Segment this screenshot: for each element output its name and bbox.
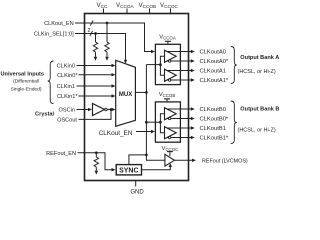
wire CLKout_EN to bank B enable	[136, 130, 155, 133]
oscillator inverter X1	[93, 104, 108, 116]
junction clock to SYNC and REFout buffer	[145, 154, 148, 157]
buffer B0 (differential)	[165, 108, 177, 120]
wire clock distribution vertical	[145, 65, 147, 155]
wire CLKoutB0*	[167, 117, 195, 120]
svg-text:VCCOA: VCCOA	[116, 2, 135, 9]
pin VCCOB	[139, 2, 157, 14]
junction clock to Bank B	[145, 121, 148, 124]
svg-text:CLKin_SEL[1:0]: CLKin_SEL[1:0]	[34, 32, 74, 38]
buffer B1 (differential)	[165, 127, 177, 139]
resistor R2 (CLKout_EN pulldown)	[105, 23, 109, 61]
resistor R1 (CLKin_SEL pulldown)	[93, 34, 97, 61]
svg-text:CLKoutA1*: CLKoutA1*	[200, 78, 229, 84]
svg-text:Output Bank B: Output Bank B	[240, 107, 279, 113]
svg-text:CLKoutA0*: CLKoutA0*	[200, 59, 229, 65]
wire CLKoutB1	[167, 126, 195, 129]
svg-text:VCCOB: VCCOB	[139, 2, 157, 9]
wire OSCin to oscillator buffer X1	[77, 108, 93, 111]
svg-text:(HCSL, or Hi-Z): (HCSL, or Hi-Z)	[238, 127, 276, 133]
wire CLKoutB1*	[167, 136, 195, 139]
pin GND	[130, 181, 144, 196]
wire CLKin0 to MUX	[77, 64, 116, 67]
SYNC block U3	[116, 165, 141, 175]
brace output bank B	[231, 101, 237, 144]
svg-text:SYNC: SYNC	[119, 167, 138, 174]
buffer A0 (differential)	[165, 50, 177, 62]
wire bank B input branch	[160, 114, 164, 133]
wire clock to Bank B	[146, 121, 160, 123]
wire CLKin1 to MUX	[77, 84, 116, 87]
wire OSCout feedback from oscillator buffer output	[79, 110, 112, 120]
resistor R3 (REFout_EN pulldown)	[94, 153, 98, 175]
pin VCC	[97, 2, 109, 14]
svg-text:CLKin1*: CLKin1*	[57, 94, 78, 100]
wire clock to Bank A	[146, 64, 160, 66]
wire SYNC enable to REFout buffer	[142, 163, 173, 170]
junction oscillator output / OSCout	[110, 108, 113, 111]
power tap VCCOC for REFout buffer	[161, 146, 178, 156]
svg-text:CLKin0: CLKin0	[57, 64, 75, 70]
svg-text:GND: GND	[130, 190, 144, 196]
output bank A box	[155, 44, 180, 84]
buffer A1 (differential)	[165, 69, 177, 81]
pin VCCOC	[160, 2, 179, 14]
svg-text:OSCout: OSCout	[57, 118, 77, 124]
svg-text:VCC: VCC	[97, 2, 109, 9]
svg-text:(HCSL, or Hi-Z): (HCSL, or Hi-Z)	[238, 69, 276, 75]
svg-text:OSCin: OSCin	[59, 108, 75, 114]
brace for universal inputs	[48, 61, 54, 104]
brace output bank A	[231, 47, 237, 84]
svg-text:CLKoutB0*: CLKoutB0*	[200, 117, 229, 123]
svg-text:CLKoutA0: CLKoutA0	[200, 50, 226, 56]
junction bank B input branch	[159, 121, 162, 124]
svg-text:MUX: MUX	[119, 92, 132, 98]
svg-text:(Differential/: (Differential/	[13, 79, 40, 85]
svg-text:Crystal: Crystal	[35, 112, 54, 118]
pin VCCOA	[116, 2, 135, 14]
svg-text:REFout (LVCMOS): REFout (LVCMOS)	[202, 159, 248, 165]
junction REFout_EN / pulldown R3	[95, 151, 98, 154]
wire clock to REFout buffer	[146, 155, 164, 160]
junction MUX output	[145, 91, 148, 94]
svg-text:CLKout_EN: CLKout_EN	[44, 21, 74, 27]
buffer U4 REFout (LVCMOS)	[165, 154, 175, 166]
svg-text:REFout_EN: REFout_EN	[46, 151, 76, 157]
svg-text:CLKoutB0: CLKoutB0	[200, 107, 226, 113]
wire CLKoutA1	[167, 69, 195, 72]
wire CLKin0* to MUX	[79, 73, 116, 76]
svg-text:VCCOB: VCCOB	[159, 92, 176, 98]
svg-text:CLKin1: CLKin1	[57, 84, 75, 90]
svg-text:VCCOC: VCCOC	[160, 2, 179, 9]
wire CLKin1* to MUX	[79, 94, 116, 97]
wire oscillator output to MUX	[107, 108, 115, 111]
junction CLKin_SEL / pulldown R1	[94, 32, 97, 35]
svg-text:CLKoutB1*: CLKoutB1*	[200, 136, 229, 142]
power tap VCCOB for Bank B	[159, 92, 176, 102]
IC boundary box U1	[85, 14, 189, 181]
mux U2	[116, 60, 136, 126]
wire CLKin_SEL bus into chip to MUX select	[75, 31, 127, 64]
wire CLKoutA0*	[167, 59, 195, 62]
wire MUX output	[135, 91, 146, 93]
wire CLKoutA0	[167, 50, 195, 53]
wire CLKout_EN from label into chip to bank A enable	[75, 20, 155, 53]
wire REFout output	[175, 159, 197, 162]
svg-text:Universal Inputs: Universal Inputs	[1, 72, 45, 78]
output bank B box	[155, 102, 180, 142]
svg-text:Single-Ended): Single-Ended)	[11, 87, 42, 93]
svg-text:CLKoutB1: CLKoutB1	[200, 126, 226, 132]
wire REFout_EN into chip to SYNC	[78, 153, 116, 172]
wire CLKoutB0	[167, 107, 195, 110]
wire CLKoutA1*	[167, 78, 195, 81]
power tap VCCOA for Bank A	[159, 35, 176, 45]
group label Universal Inputs	[1, 72, 45, 93]
wire clock to SYNC	[129, 155, 147, 165]
svg-text:CLKoutA1: CLKoutA1	[200, 69, 226, 75]
junction bank A input branch	[159, 63, 162, 66]
svg-text:CLKout_EN: CLKout_EN	[99, 130, 133, 137]
wire bank A input branch	[160, 56, 164, 75]
svg-text:VCCOA: VCCOA	[159, 35, 176, 41]
svg-text:Output Bank A: Output Bank A	[240, 55, 279, 61]
junction CLKout_EN / pulldown R2	[106, 22, 109, 25]
svg-text:CLKin0*: CLKin0*	[57, 73, 78, 79]
